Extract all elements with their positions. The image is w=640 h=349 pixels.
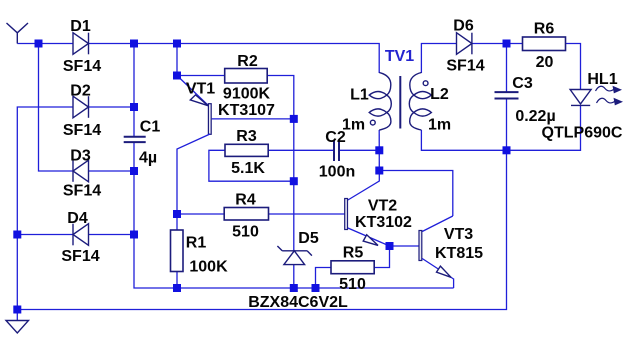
zener diode D5 — [277, 246, 312, 265]
node junction (134.5,171.5) — [130, 167, 138, 175]
resistor R6 — [523, 37, 566, 51]
wire D3 anode to bridge rail — [89, 170, 135, 172]
wire VT3 collector riser to node — [379, 171, 453, 217]
HL1 light arrows — [596, 86, 622, 104]
LED HL1 — [570, 90, 591, 106]
svg-text:R2: R2 — [237, 53, 258, 70]
wire left rail x=17.8 D2 row down to ground rail — [17, 107, 73, 310]
svg-text:20: 20 — [536, 54, 554, 71]
wire C3 branch x=507 and ground rail y=310 — [17, 44, 506, 310]
node junction (134.5,107.5) — [130, 103, 138, 111]
wire R1 stubs — [176, 214, 178, 288]
node junction (379.8,150.8) — [375, 146, 383, 154]
capacitor C3 — [495, 92, 519, 98]
wire bridge rail x=134.5 down and bottom rail y=288.5 — [134, 44, 454, 289]
transistor VT2 KT3102 (NPN) — [345, 171, 390, 247]
svg-text:VT1: VT1 — [186, 81, 215, 98]
node junction (316,288.5) — [312, 284, 320, 292]
svg-text:100K: 100K — [189, 259, 228, 276]
node junction (17.8,235) — [13, 231, 21, 239]
svg-text:QTLP690C: QTLP690C — [542, 125, 623, 142]
svg-text:SF14: SF14 — [61, 248, 99, 265]
svg-text:KT3102: KT3102 — [355, 214, 412, 231]
svg-text:D6: D6 — [453, 18, 474, 35]
svg-text:D2: D2 — [70, 83, 91, 100]
wire VT2 emitter junction to VT3 base and R5 loop — [316, 246, 419, 288]
svg-text:TV1: TV1 — [385, 48, 414, 65]
svg-text:SF14: SF14 — [63, 183, 101, 200]
svg-text:D1: D1 — [70, 18, 91, 35]
inductor L1 winding — [369, 73, 391, 131]
svg-text:KT3107: KT3107 — [218, 102, 275, 119]
wire rail x=39 from top to D3 row — [39, 44, 74, 172]
wire R4 row from R1 top junction to VT2 base — [177, 213, 345, 215]
svg-text:R1: R1 — [186, 235, 207, 252]
svg-text:5.1K: 5.1K — [231, 160, 265, 177]
node junction (294.3,288.5) — [290, 284, 298, 292]
svg-text:L1: L1 — [350, 87, 369, 104]
svg-text:R4: R4 — [235, 192, 256, 209]
node junction (507,44) — [503, 40, 511, 48]
svg-text:R3: R3 — [236, 128, 257, 145]
svg-text:R5: R5 — [343, 245, 364, 262]
node junction (379.8,171) — [375, 167, 383, 175]
svg-text:C3: C3 — [512, 75, 533, 92]
diode D6 — [457, 33, 472, 55]
wire L1 bottom riser through C2 junction to VT2 collector node — [378, 130, 380, 171]
node junction (134.5,44) — [130, 40, 138, 48]
svg-text:D3: D3 — [70, 148, 91, 165]
svg-text:100n: 100n — [319, 164, 355, 181]
node junction (177.5,44) — [173, 40, 181, 48]
ground — [6, 321, 29, 334]
wire VT1 emitter node riser — [177, 44, 225, 76]
node junction (390,246.5) — [386, 242, 394, 250]
capacitor C1 — [124, 137, 146, 142]
node junction (294.3,181.7) — [290, 177, 298, 185]
transistor VT3 KT815 (NPN) — [419, 216, 454, 279]
svg-text:SF14: SF14 — [63, 58, 101, 75]
wire D2 cathode to bridge rail — [89, 106, 135, 108]
node junction (294.3,119.4) — [290, 115, 298, 123]
svg-text:510: 510 — [232, 224, 259, 241]
transformer TV1 core — [399, 76, 401, 129]
svg-text:VT3: VT3 — [444, 226, 473, 243]
svg-text:VT2: VT2 — [368, 198, 397, 215]
wire L2 bottom to C3 node to HL1 bottom — [421, 106, 580, 151]
svg-text:D4: D4 — [67, 210, 88, 227]
node junction (177.5,76) — [173, 72, 181, 80]
wire D4 anode to bridge rail — [89, 234, 135, 236]
node junction (134.5,235) — [130, 231, 138, 239]
node junction (177.5,288.5) — [173, 284, 181, 292]
transistor VT1 KT3107 (PNP) — [177, 76, 294, 215]
wire C2 right plate to junction — [339, 149, 379, 151]
svg-text:HL1: HL1 — [587, 71, 617, 88]
diode D3 — [73, 160, 89, 182]
svg-text:SF14: SF14 — [446, 58, 484, 75]
wire L2 top to D6 to R6 to HL1 — [421, 44, 580, 91]
wire R3 left loop to junction — [209, 150, 294, 181]
node junction (17.8,310) — [13, 306, 21, 314]
resistor R5 — [331, 261, 374, 274]
node junction (177.5,214.5) — [173, 210, 181, 218]
svg-text:L2: L2 — [430, 86, 449, 103]
svg-text:1m: 1m — [342, 117, 365, 134]
diode D4 — [73, 224, 89, 246]
svg-text:1m: 1m — [428, 117, 451, 134]
svg-text:KT815: KT815 — [435, 245, 483, 262]
wire R2 right to base rail x=294.3 down to D5 and bottom — [267, 76, 294, 289]
diode D2 — [73, 96, 89, 118]
wire VT3 emitter drop — [453, 279, 455, 289]
svg-text:9100K: 9100K — [223, 86, 271, 103]
svg-text:R6: R6 — [534, 21, 555, 38]
resistor R3 — [225, 144, 268, 156]
svg-text:4µ: 4µ — [139, 150, 157, 167]
resistor R2 — [225, 69, 268, 84]
svg-text:510: 510 — [339, 276, 366, 293]
wire R3 right to C2 — [268, 149, 334, 151]
svg-text:0.22µ: 0.22µ — [515, 108, 555, 125]
svg-text:D5: D5 — [298, 230, 319, 247]
antenna — [7, 23, 29, 44]
node junction (507,150.8) — [503, 146, 511, 154]
wire ground stem — [16, 310, 18, 321]
svg-text:SF14: SF14 — [63, 122, 101, 139]
svg-text:C1: C1 — [140, 119, 161, 136]
wire top rail y=44 from antenna to L1 riser — [17, 44, 379, 74]
capacitor C2 — [334, 140, 339, 161]
wire D4 row — [17, 234, 73, 236]
node junction (39,44) — [35, 40, 43, 48]
svg-text:BZX84C6V2L: BZX84C6V2L — [248, 294, 348, 311]
inductor L2 winding — [409, 73, 431, 131]
resistor R1 — [171, 230, 184, 272]
diode D1 — [73, 33, 89, 55]
resistor R4 — [224, 208, 268, 221]
